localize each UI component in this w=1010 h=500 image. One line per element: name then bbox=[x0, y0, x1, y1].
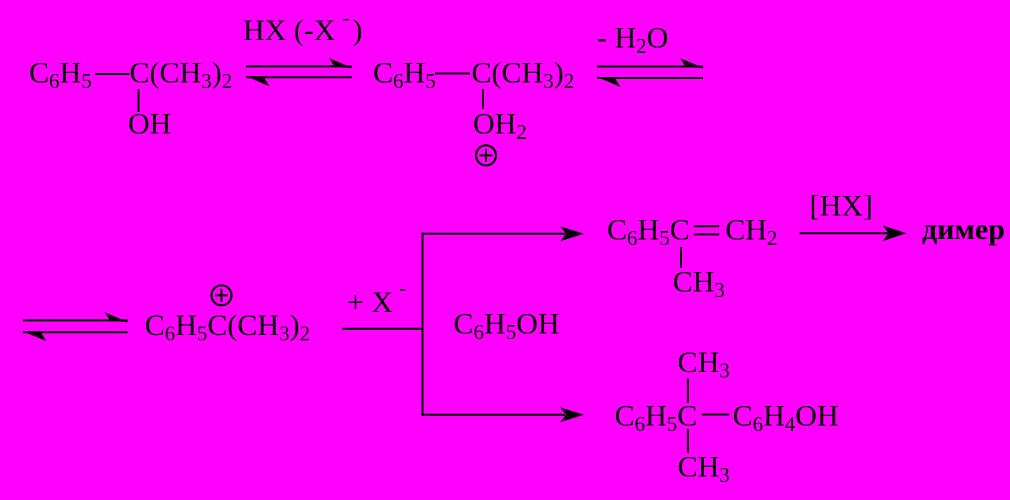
svg-text:- H2O: - H2O bbox=[597, 22, 668, 59]
svg-text:C(CH3)2: C(CH3)2 bbox=[130, 56, 233, 93]
svg-text:[HX]: [HX] bbox=[810, 190, 873, 223]
svg-text:C(CH3)2: C(CH3)2 bbox=[472, 56, 575, 93]
svg-text:димер: димер bbox=[922, 213, 1005, 246]
svg-text:OH: OH bbox=[128, 108, 171, 141]
svg-text:C6H5C: C6H5C bbox=[607, 214, 690, 251]
svg-text:C6H5C: C6H5C bbox=[615, 400, 698, 437]
